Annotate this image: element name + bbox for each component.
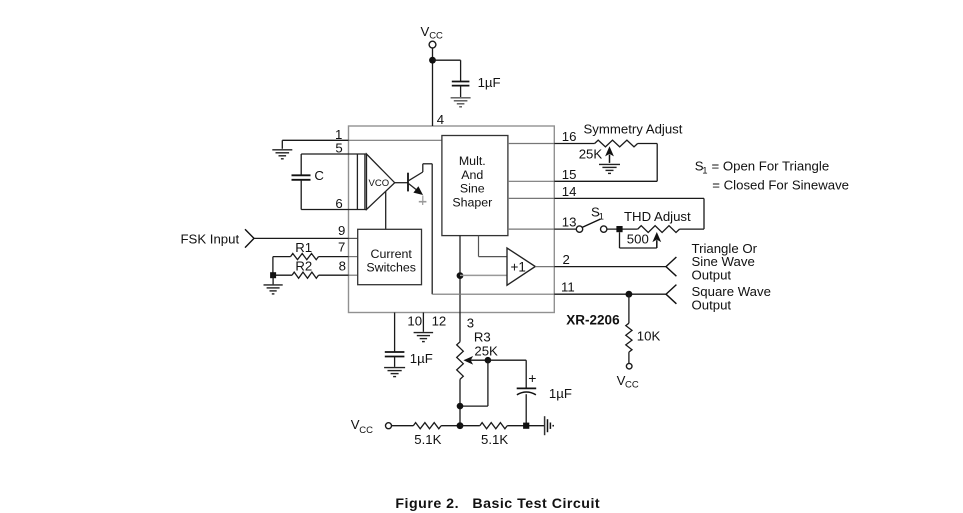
svg-text:6: 6 <box>335 196 342 211</box>
pin 10 label <box>407 313 422 328</box>
label 1uF <box>478 75 501 90</box>
svg-text:1µF: 1µF <box>410 351 433 366</box>
capacitor 1uF (pin 10 bypass) <box>385 352 405 367</box>
svg-text:8: 8 <box>339 259 346 274</box>
pin 6 label <box>335 196 342 211</box>
label Triangle Or Sine Wave Output <box>692 241 758 283</box>
svg-text:13: 13 <box>562 215 577 230</box>
input terminal chevron <box>245 229 254 247</box>
resistor R2 <box>273 257 349 279</box>
ground (pin 12) <box>414 333 434 342</box>
pin 1 label <box>335 127 342 142</box>
wire pin 11 output <box>554 293 666 295</box>
net pin 13 internal <box>508 228 554 230</box>
svg-text:+1: +1 <box>511 259 526 274</box>
wire pin 10 <box>394 313 396 352</box>
svg-text:1: 1 <box>599 211 604 222</box>
potentiometer 25K (symmetry) <box>595 140 658 147</box>
svg-text:9: 9 <box>338 223 345 238</box>
label 5.1K (left) <box>414 432 441 447</box>
block Mult. And Sine Shaper <box>442 136 508 236</box>
svg-text:5: 5 <box>335 140 342 155</box>
svg-text:C: C <box>314 168 324 183</box>
svg-text:Current: Current <box>371 247 413 261</box>
pin 9 label <box>338 223 345 238</box>
svg-text:Figure 2. Basic Test Circuit: Figure 2. Basic Test Circuit <box>395 496 600 512</box>
wire pin 12 <box>422 313 424 332</box>
svg-text:11: 11 <box>561 280 575 295</box>
wire Vcc to pin 4 <box>432 48 434 126</box>
pin 3 label <box>467 316 474 331</box>
capacitor C (timing) <box>292 175 311 180</box>
svg-text:Symmetry Adjust: Symmetry Adjust <box>584 122 683 137</box>
svg-text:XR-2206: XR-2206 <box>566 312 620 327</box>
junction node (pot left/wiper) <box>616 226 622 232</box>
svg-text:VCO: VCO <box>369 178 390 189</box>
net shaper to pin 3 <box>459 236 461 313</box>
potentiometer 500 (THD) <box>638 226 704 233</box>
pin 8 label <box>339 259 346 274</box>
Vcc terminal (bottom rail) <box>351 417 392 436</box>
caption Figure 2 <box>395 496 600 512</box>
svg-text:R1: R1 <box>295 240 312 255</box>
wire pin 16 <box>554 143 594 145</box>
pin 15 label <box>562 167 577 182</box>
svg-text:12: 12 <box>432 313 447 328</box>
svg-text:15: 15 <box>562 167 577 182</box>
net pin 11 internal <box>432 293 554 295</box>
svg-text:V: V <box>421 24 430 39</box>
pin 2 label <box>563 252 570 267</box>
ground (R1/R2) <box>264 285 283 294</box>
svg-text:10: 10 <box>407 313 422 328</box>
label 25K <box>579 147 603 162</box>
svg-text:Square Wave: Square Wave <box>692 284 771 299</box>
wire wiper to electrolytic cap <box>488 360 526 387</box>
net pin 15 internal <box>508 180 554 182</box>
resistor 5.1K (right) <box>460 423 544 429</box>
junction node R3 wiper <box>485 357 492 364</box>
wire pin 14 <box>554 198 704 229</box>
Vcc terminal (10K) <box>617 363 639 390</box>
svg-text:14: 14 <box>562 184 577 199</box>
svg-text:1: 1 <box>702 166 707 177</box>
potentiometer R3 25K <box>457 313 464 426</box>
svg-text:R2: R2 <box>295 258 312 273</box>
net pin 16 internal <box>508 143 554 145</box>
ground (bottom rail, rotated) <box>545 416 554 435</box>
pin 7 internal <box>349 256 358 258</box>
wire junction to ground <box>272 275 274 284</box>
pin 1 wire <box>282 140 348 149</box>
label THD Adjust <box>624 209 691 224</box>
svg-text:= Open For Triangle: = Open For Triangle <box>712 159 830 174</box>
junction node R1/R2 <box>270 272 276 278</box>
block Current Switches <box>358 229 422 284</box>
net buffer out to pin 2 <box>535 266 554 268</box>
wire pin 13 to switch <box>554 228 576 230</box>
svg-text:5.1K: 5.1K <box>414 432 441 447</box>
label FSK Input <box>181 231 240 246</box>
capacitor 1uF electrolytic <box>517 388 537 425</box>
output terminal chevron (pin 2) <box>666 257 676 276</box>
resistor R1 <box>273 254 349 260</box>
svg-text:Sine: Sine <box>460 182 485 196</box>
svg-text:1µF: 1µF <box>549 386 572 401</box>
svg-text:Output: Output <box>692 268 732 283</box>
wiper arrow (R3) <box>463 356 488 365</box>
svg-text:FSK Input: FSK Input <box>181 231 240 246</box>
wire FSK to pin 9 <box>254 237 349 239</box>
note S1 open/closed <box>695 159 849 193</box>
label + polarity <box>528 370 536 386</box>
wire pin 5 loop top <box>301 153 348 155</box>
svg-text:+: + <box>528 370 536 386</box>
label Symmetry Adjust <box>584 122 683 137</box>
op-amp/VCO block U1 <box>349 154 395 210</box>
wire junction to bypass cap <box>433 60 461 81</box>
svg-text:R3: R3 <box>474 330 491 345</box>
net shaper to buffer input <box>479 236 508 257</box>
svg-text:Shaper: Shaper <box>452 195 492 209</box>
svg-text:16: 16 <box>562 129 577 144</box>
Vcc supply terminal (top) <box>421 24 444 48</box>
wire VCO to current switches <box>385 191 387 229</box>
pin 9 internal <box>349 237 358 239</box>
svg-text:3: 3 <box>467 316 474 331</box>
ground (Vcc bypass cap) <box>451 98 471 107</box>
wire loop left lower <box>300 180 302 210</box>
wire switch to THD pot <box>607 228 638 230</box>
transistor Q1 <box>395 164 423 195</box>
label 1uF (electrolytic) <box>549 386 572 401</box>
label 25K (R3) <box>474 344 498 359</box>
wire Vcc to 5.1K <box>392 425 414 427</box>
pin 12 label <box>432 313 447 328</box>
svg-text:10K: 10K <box>637 329 661 344</box>
junction node Vcc/bypass <box>429 57 436 64</box>
op-amp buffer +1 <box>507 248 535 285</box>
pin 4 label <box>437 112 444 127</box>
pin 1 internal net to shaper <box>349 139 442 141</box>
resistor 10K pull-up <box>626 294 632 363</box>
svg-text:5.1K: 5.1K <box>481 432 508 447</box>
label 10K <box>637 329 661 344</box>
label 500 <box>627 231 649 246</box>
svg-text:25K: 25K <box>579 147 603 162</box>
pin 16 label <box>562 129 577 144</box>
svg-text:CC: CC <box>359 425 373 436</box>
resistor 5.1K (left) <box>413 423 460 429</box>
label R3 <box>474 330 491 345</box>
pin 13 label <box>562 215 577 230</box>
svg-text:= Closed For Sinewave: = Closed For Sinewave <box>712 177 849 192</box>
wire pin 2 output <box>554 266 666 268</box>
svg-text:And: And <box>461 168 483 182</box>
svg-text:THD Adjust: THD Adjust <box>624 209 691 224</box>
wire sym pot to pin 15 <box>554 144 657 182</box>
wiper arrow (THD pot) <box>652 232 661 248</box>
wire collector to square-wave net <box>423 164 432 294</box>
svg-text:500: 500 <box>627 231 649 246</box>
label XR-2206 <box>566 312 620 327</box>
wire wiper to R3 bottom <box>460 360 488 406</box>
net junction to buffer (gray) <box>460 274 507 276</box>
ground (symmetry wiper) <box>599 164 620 173</box>
svg-text:7: 7 <box>338 240 345 255</box>
label 5.1K (right) <box>481 432 508 447</box>
wire loop left upper <box>300 154 302 175</box>
label Square Wave Output <box>692 284 771 313</box>
junction node rail/cap <box>523 423 529 429</box>
wire wiper loop to pot left <box>620 232 657 248</box>
label S1 <box>591 204 604 222</box>
pin 5 label <box>335 140 342 155</box>
svg-text:1µF: 1µF <box>478 75 501 90</box>
pin 7 label <box>338 240 345 255</box>
svg-text:Output: Output <box>692 298 732 313</box>
ground (pin 1) <box>272 150 292 159</box>
pin 8 internal <box>349 274 358 276</box>
svg-text:25K: 25K <box>474 344 498 359</box>
pin 14 label <box>562 184 577 199</box>
IC XR-2206 outline <box>349 126 555 313</box>
junction node sine out <box>457 272 464 279</box>
svg-text:Mult.: Mult. <box>459 154 486 168</box>
capacitor 1uF (Vcc bypass) <box>452 82 470 98</box>
svg-text:CC: CC <box>429 31 443 42</box>
junction node rail/R3 <box>457 422 464 429</box>
label 1uF (pin 10) <box>410 351 433 366</box>
svg-text:4: 4 <box>437 112 444 127</box>
switch S1 <box>576 219 607 232</box>
ground (pin 10 cap) <box>384 368 405 377</box>
net pin 14 internal <box>508 197 554 199</box>
wire pin 6 loop bottom <box>301 209 348 211</box>
svg-text:2: 2 <box>563 252 570 267</box>
label R2 <box>295 258 312 273</box>
junction node R3 bottom <box>457 403 464 410</box>
pin 11 label <box>561 280 575 295</box>
label R1 <box>295 240 312 255</box>
junction node pin 11 / 10K <box>626 291 633 298</box>
output terminal chevron (pin 11) <box>666 285 676 304</box>
label C <box>314 168 324 183</box>
svg-text:CC: CC <box>625 379 639 390</box>
svg-text:Switches: Switches <box>366 261 416 275</box>
wiper arrow (symmetry pot) <box>605 146 614 163</box>
emitter ground (gray) <box>419 196 427 206</box>
